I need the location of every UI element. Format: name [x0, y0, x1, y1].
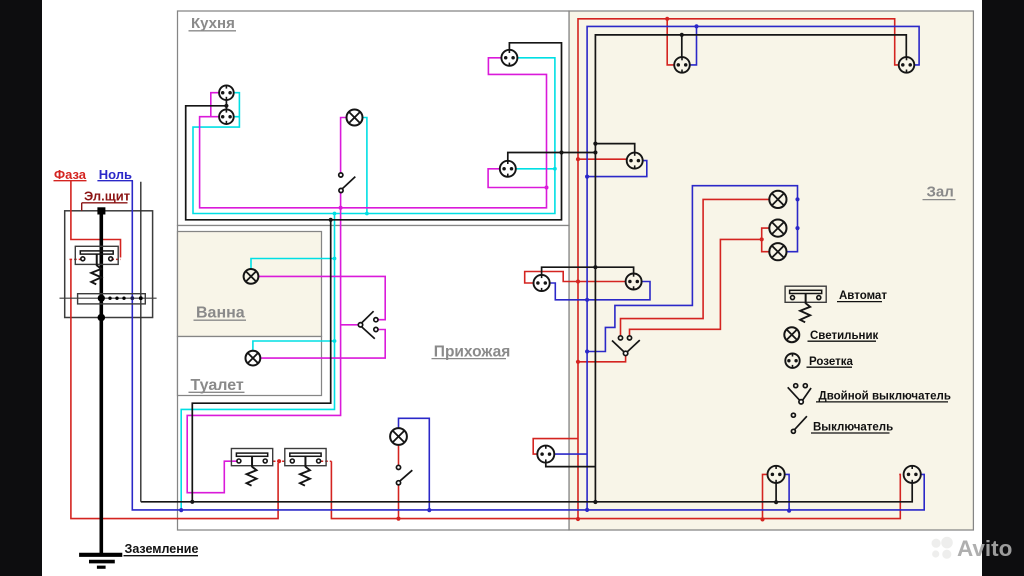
socket K2 kitchen	[219, 109, 234, 124]
wire red drop to socket T1	[667, 19, 674, 65]
svg-text:Автомат: Автомат	[839, 290, 887, 302]
lamp L3 Zal	[769, 243, 786, 260]
wire cyan kitchen light drop	[363, 118, 367, 214]
label legend Svetilnik	[808, 330, 879, 342]
wire black branch socket ZS1	[595, 144, 634, 153]
socket A Zal bottom left	[768, 466, 785, 483]
wire magenta kitchen switch down through hallway to breaker1	[187, 193, 340, 493]
switch kitchen	[339, 173, 356, 193]
wire blue branch hallway socket PS2	[555, 453, 588, 455]
socket K1 kitchen	[219, 85, 234, 100]
wire cyan bath light	[251, 259, 335, 270]
junction blue dot 1	[585, 175, 589, 179]
junction cyan dot 3	[553, 167, 557, 171]
junction blue dot 4	[585, 508, 589, 512]
wire phase red main drop to bottom run and riser to breakers	[71, 259, 278, 518]
junction red dot 1	[576, 157, 580, 161]
legend lamp symbol	[784, 327, 799, 342]
wire black thin PE line from top to ground run	[140, 182, 142, 502]
room Tualet box	[178, 337, 322, 396]
wire black kitchen drop to toilet run and ground run	[192, 220, 330, 502]
wire red dashed stub right of breaker2	[321, 460, 332, 462]
label legend Dvoynoy vyklyuchatel	[816, 390, 951, 402]
label El-shchit drop to panel	[81, 203, 83, 211]
svg-text:Avito: Avito	[957, 536, 1012, 561]
junction black dot 10	[774, 500, 778, 504]
room Hallway container box	[178, 226, 570, 531]
switch hallway	[396, 465, 412, 485]
room Zal box	[569, 11, 973, 530]
lamp toilet	[246, 351, 261, 366]
lamp bath	[244, 269, 259, 284]
socket PS1 hallway upper	[534, 275, 550, 291]
wire blue Zal lights loop and staircase return	[587, 186, 797, 352]
socket T1 Zal top left	[674, 57, 690, 73]
svg-text:Светильник: Светильник	[810, 330, 879, 342]
junction black dot 5	[593, 142, 597, 146]
Avito watermark logo	[932, 537, 953, 559]
junction magenta dot 2	[339, 206, 343, 210]
left black bar	[0, 0, 42, 576]
junction red dot 8	[396, 517, 400, 521]
right black bar	[982, 0, 1024, 576]
label legend Avtomat	[837, 290, 887, 302]
junction black dot 9	[190, 500, 194, 504]
label Faza	[54, 167, 87, 182]
lamp L1 Zal	[769, 191, 786, 208]
junction black dot 3	[559, 150, 563, 154]
socket ZS2 Zal left lower	[626, 274, 642, 290]
junction blue dot 6	[787, 509, 791, 513]
svg-text:Зал: Зал	[927, 183, 954, 200]
label Zal	[923, 183, 956, 200]
svg-text:Заземление: Заземление	[125, 542, 199, 556]
wire blue Zal riser and top run to socket T2	[587, 26, 919, 510]
wire cyan bath-toilet riser to neutral run	[181, 214, 334, 511]
wire black kitchen ground bus K1 K2 loop riser to K3	[186, 43, 562, 220]
junction red dot 7	[760, 517, 764, 521]
junction black dot 6	[593, 265, 597, 269]
wire red Zal lights L2 L3 feed	[630, 228, 770, 336]
junction red dot 2	[576, 279, 580, 283]
junction blue dot 3	[585, 349, 589, 353]
junction cyan dot 1	[333, 257, 337, 261]
wire phase red label-drop and panel jog	[71, 181, 121, 258]
socket T2 Zal top right	[899, 57, 915, 73]
wire magenta toilet light to double switch bottom contact	[260, 330, 385, 359]
wire magenta kitchen light to switch	[341, 118, 347, 173]
wire blue hallway light drop	[399, 418, 430, 510]
wire red Zal double-switch feed	[578, 356, 626, 362]
wire blue branch socket ZS1	[587, 161, 647, 177]
lamp L2 Zal	[769, 220, 786, 237]
label legend Rozetka	[807, 356, 854, 368]
junction red dot 6	[760, 237, 764, 241]
wire magenta kitchen sockets K1 K2 loop bottom run riser to K3	[200, 58, 547, 208]
ground main thick conductor	[100, 211, 104, 555]
terminal strip in panel	[60, 294, 157, 304]
label Zazemlenie	[124, 542, 199, 556]
svg-text:Выключатель: Выключатель	[813, 422, 893, 434]
wire black kitchen socket K4 to Zal riser	[508, 153, 596, 161]
junction blue dot 7	[427, 508, 431, 512]
junction black dot 4	[593, 150, 597, 154]
junction cyan dot 5	[333, 212, 337, 216]
wire black hallway socket PS1 and Zal socket ZS2 branch	[542, 267, 634, 275]
circuit breaker QF1 hallway	[231, 449, 272, 486]
svg-text:Ванна: Ванна	[196, 304, 245, 321]
wire blue Zal socket A drop	[785, 474, 789, 510]
junction red dot 9	[277, 459, 281, 463]
svg-text:Кухня: Кухня	[191, 15, 235, 32]
label legend Vyklyuchatel	[811, 422, 893, 434]
svg-text:Туалет: Туалет	[191, 377, 244, 394]
label Vanna	[194, 304, 247, 321]
wire red dashed link between hallway breakers	[273, 460, 285, 462]
junction black dot 2	[329, 218, 333, 222]
double switch Zal	[612, 336, 640, 356]
junction cyan dot 4	[365, 212, 369, 216]
junction blue dot 8	[179, 508, 183, 512]
wire cyan kitchen socket K4 stub	[516, 168, 555, 170]
wire red Zal socket A drop	[763, 474, 768, 519]
junction blue dot 5	[694, 24, 698, 28]
junction blue dot 9	[795, 197, 799, 201]
junction magenta dot 1	[545, 186, 549, 190]
label Nol	[97, 167, 133, 182]
wire red branch to socket ZS2 and hallway socket PS1 detour	[525, 272, 626, 284]
wire cyan kitchen sockets K1 K2 loop to light bus	[193, 58, 555, 214]
label Tualet	[189, 377, 245, 394]
wire red hallway light to switch	[398, 445, 400, 465]
socket ZS1 Zal left upper	[627, 153, 643, 169]
wire black ground bottom run	[141, 483, 912, 502]
lamp kitchen	[347, 110, 363, 126]
label Prihozhaya	[432, 343, 511, 360]
junction blue dot 10	[795, 226, 799, 230]
wire phase red Zal riser and top run to socket T2	[578, 19, 899, 519]
socket K4 kitchen	[500, 161, 516, 177]
circuit breaker panel	[75, 246, 118, 284]
wire phase red bottom run from breaker2 to Zal socket B	[331, 461, 900, 518]
lamp hallway	[390, 428, 407, 445]
legend single switch symbol	[791, 413, 807, 433]
wire red Zal light L1 feed	[621, 199, 770, 335]
wire black hallway socket PS2 branch	[546, 463, 596, 467]
wire black drop to socket T1	[681, 35, 683, 57]
wire magenta bath light to double switch top contact	[258, 276, 385, 319]
wire phase red dashed stub left contact of panel breaker	[70, 258, 81, 260]
legend socket symbol	[785, 354, 799, 368]
circuit breaker QF2 hallway	[285, 449, 326, 486]
ground symbol	[79, 555, 122, 567]
junction black dot 8	[680, 33, 684, 37]
wire blue drop to socket T1	[690, 26, 697, 65]
svg-text:Двойной выключатель: Двойной выключатель	[819, 390, 951, 402]
svg-text:Фаза: Фаза	[54, 167, 87, 182]
label Kuhnya	[189, 15, 237, 32]
panel ground node squares	[97, 207, 105, 321]
room Vanna box	[178, 232, 322, 337]
junction blue dot 2	[585, 298, 589, 302]
double switch hallway	[358, 311, 378, 339]
wire red hallway switch down to run	[398, 485, 400, 519]
electrical panel box	[65, 211, 153, 318]
junction cyan dot 2	[333, 339, 337, 343]
legend breaker symbol	[785, 286, 826, 322]
wire phase red dashed stub right contact of panel breaker	[111, 258, 121, 260]
wire cyan toilet light	[253, 341, 335, 351]
wire red branch to socket ZS1	[578, 158, 627, 160]
junction black dot 7	[593, 500, 597, 504]
wire red branch hallway socket PS2	[533, 439, 578, 455]
junction red dot 5	[665, 17, 669, 21]
wire neutral blue label-drop bottom run to socket B	[132, 181, 924, 510]
room Kitchen box	[178, 11, 570, 226]
svg-text:Эл.щит: Эл.щит	[84, 188, 130, 203]
svg-text:Прихожая: Прихожая	[434, 343, 510, 360]
wire magenta stub to hallway double switch vertex	[341, 324, 359, 326]
junction red dot 3	[576, 360, 580, 364]
label El-shchit	[82, 188, 130, 203]
junction red dot 4	[576, 517, 580, 521]
wire black Zal ground riser and top run to socket T2	[595, 35, 906, 502]
wire blue branch socket ZS2 and hallway socket PS1	[550, 282, 650, 300]
socket B Zal bottom right	[904, 466, 921, 483]
wire magenta kitchen socket K4 branch	[488, 169, 546, 188]
socket K3 kitchen	[501, 50, 517, 66]
socket PS2 hallway lower	[537, 446, 554, 463]
svg-text:Ноль: Ноль	[99, 167, 132, 182]
wire black Zal socket A drop	[775, 483, 777, 502]
legend double switch symbol	[788, 384, 811, 404]
svg-text:Розетка: Розетка	[809, 356, 853, 368]
junction black dot 1	[224, 104, 228, 108]
